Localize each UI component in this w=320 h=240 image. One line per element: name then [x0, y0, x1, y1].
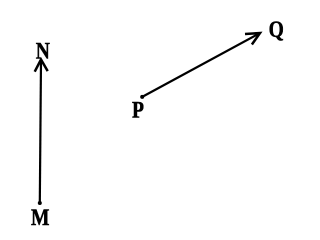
ray MN arrowhead at N [35, 60, 48, 72]
ray PQ arrowhead at Q [245, 33, 260, 45]
svg-text:M: M [31, 205, 49, 231]
svg-text:P: P [132, 97, 144, 123]
ray MN shaft (wire) [40, 61, 41, 204]
point P dot [140, 95, 144, 99]
ray PQ shaft (wire) [142, 34, 259, 97]
point M dot [38, 201, 42, 205]
svg-text:Q: Q [269, 17, 284, 43]
svg-text:N: N [36, 38, 51, 64]
